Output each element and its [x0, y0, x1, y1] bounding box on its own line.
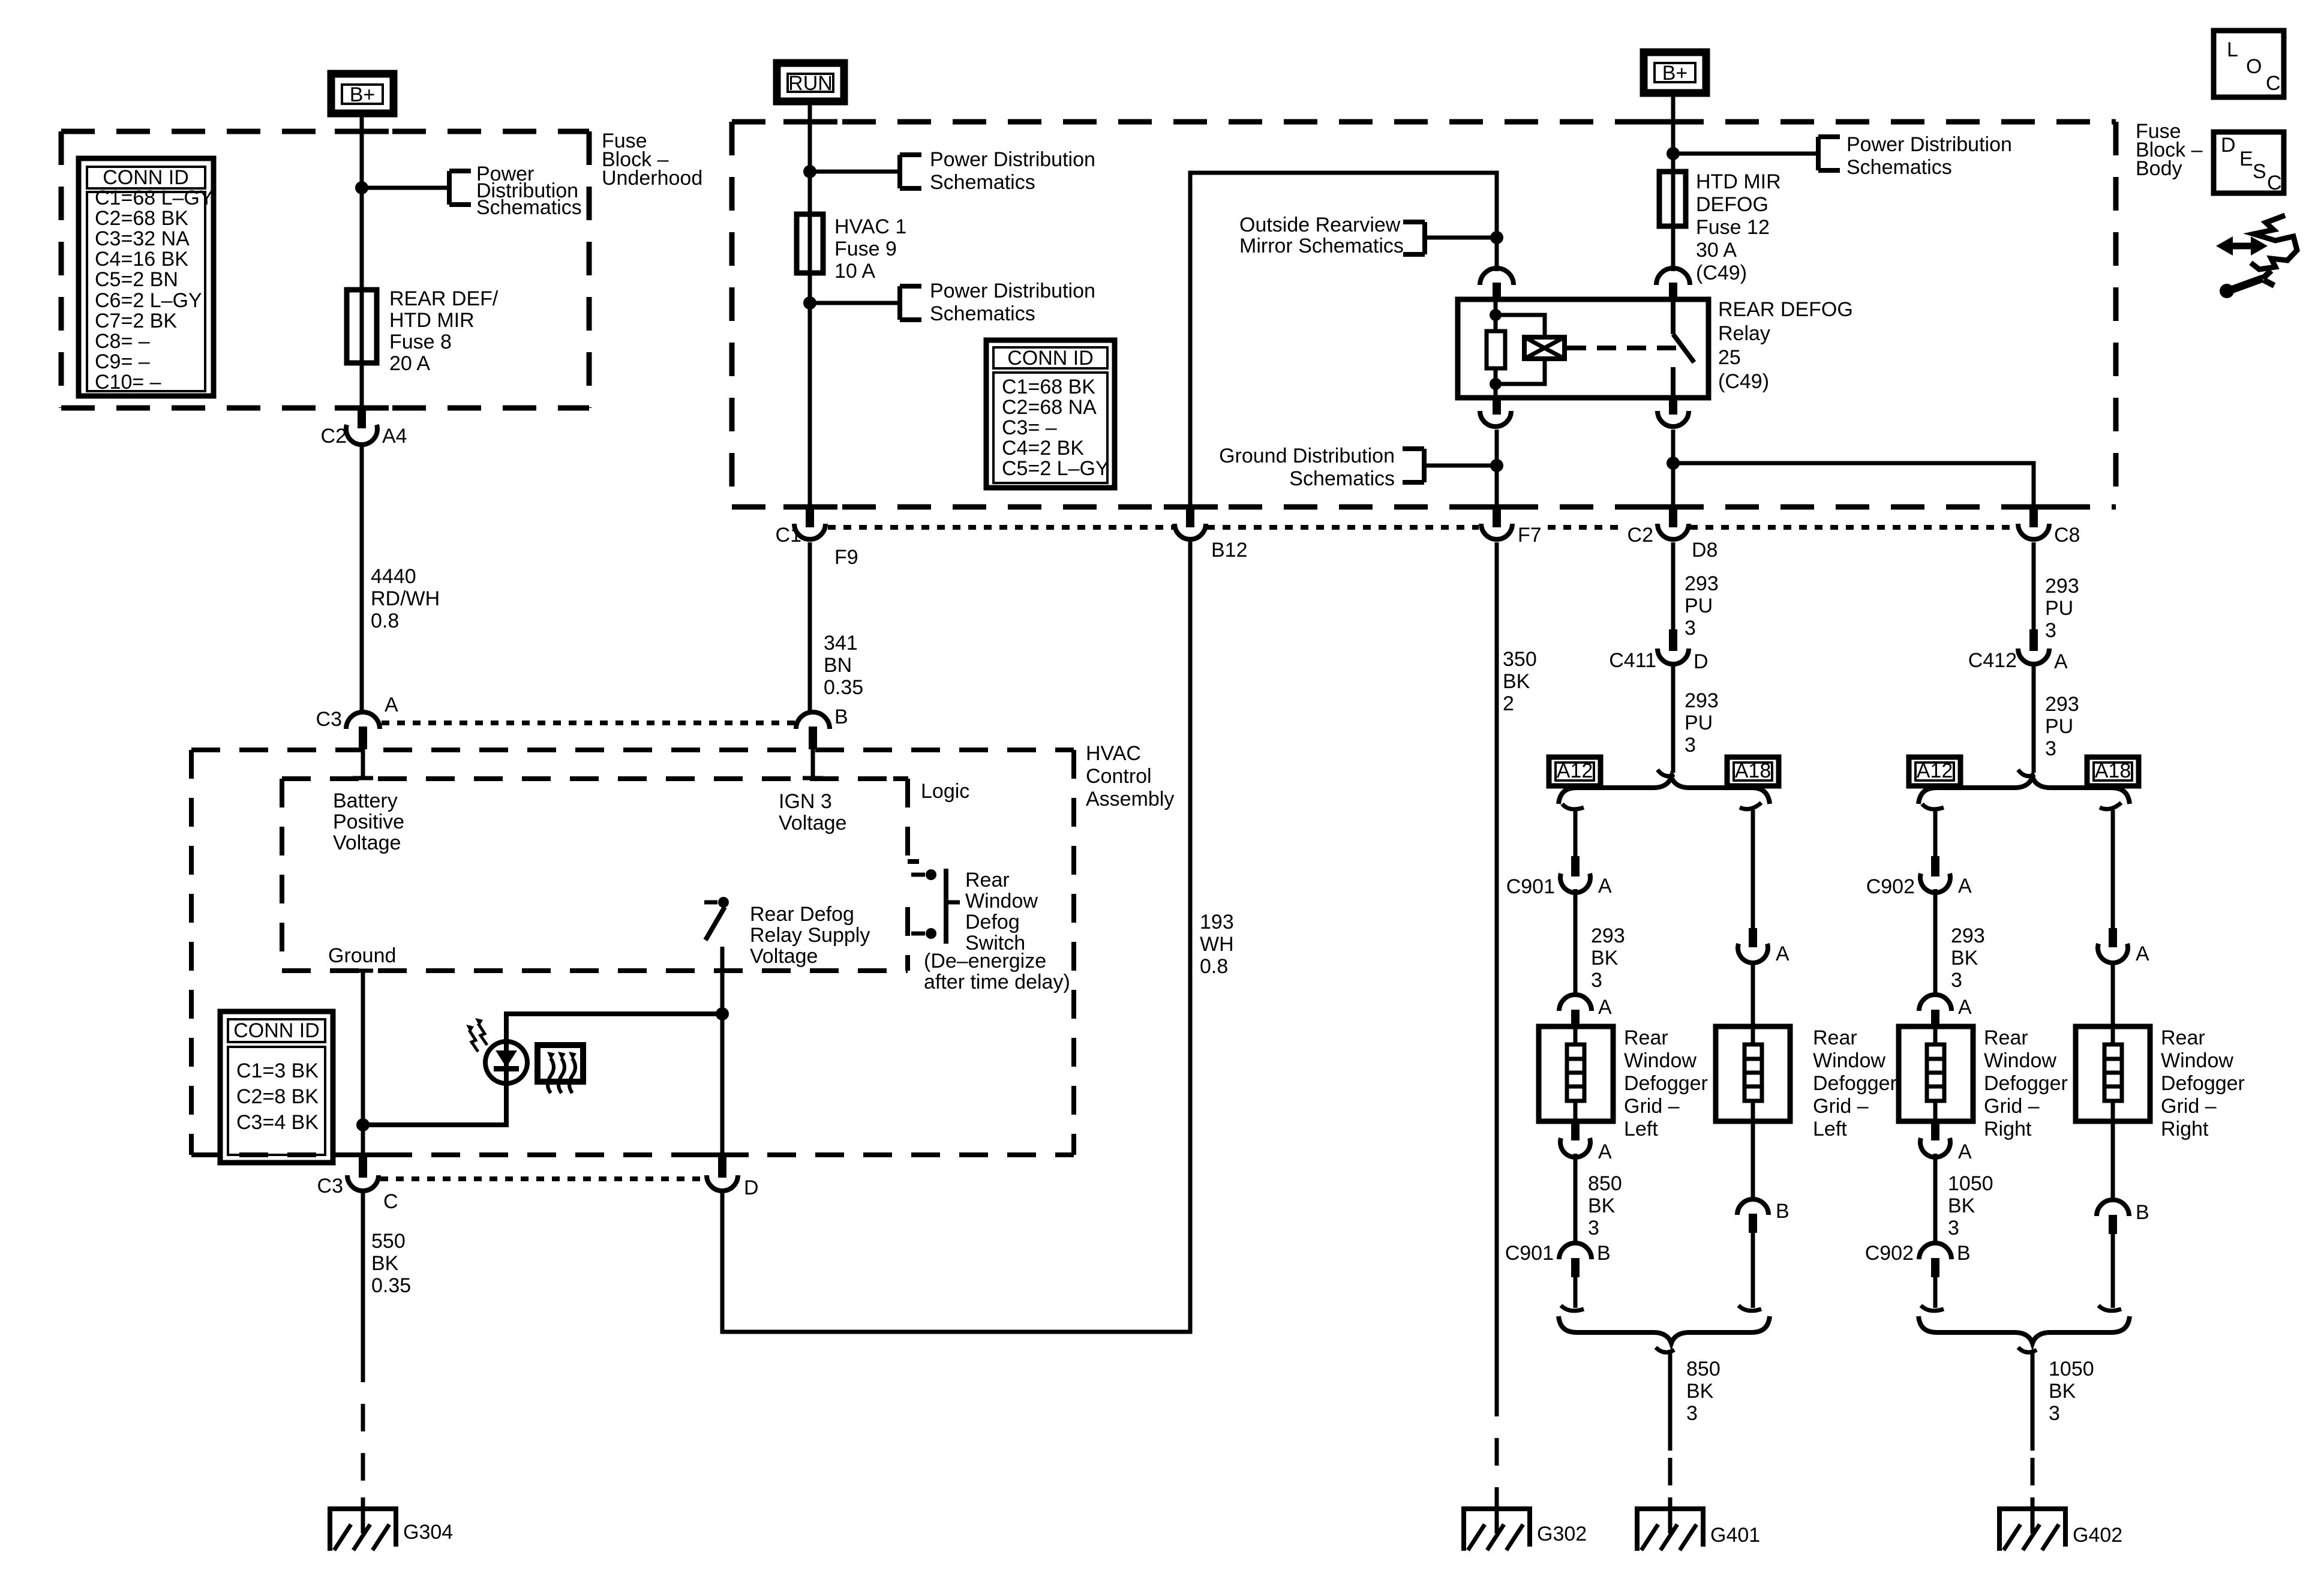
svg-text:Defogger: Defogger: [1984, 1072, 2068, 1095]
wire: col2 into bottom brace: [1751, 1233, 1755, 1308]
connector A (grid right 2): [2098, 928, 2149, 965]
wire: circuit 293 BK 3 (col3): [1933, 889, 1938, 993]
wire: circuit 293 PU 3 (lower): [1671, 664, 1676, 773]
bracket: power distribution schematics (underhood): [449, 171, 471, 205]
svg-text:3: 3: [1951, 969, 1962, 992]
label: Rear Window Defogger Grid - Right (1): [1984, 1026, 2068, 1140]
svg-text:30 A: 30 A: [1696, 239, 1737, 262]
svg-text:A4: A4: [382, 425, 407, 448]
splice hook col1 bottom: [1561, 1305, 1584, 1311]
connector: relay coil pin (bottom): [1480, 397, 1511, 427]
harness brace (left group top): [1559, 777, 1770, 804]
svg-text:Fuse 8: Fuse 8: [389, 331, 452, 353]
svg-text:Left: Left: [1813, 1118, 1847, 1140]
svg-text:C8: C8: [2054, 524, 2080, 547]
wire to bracket 2: [810, 301, 900, 305]
svg-text:L: L: [2227, 38, 2238, 61]
wire: col3 drop to C902: [1933, 810, 1938, 857]
svg-text:293: 293: [2045, 575, 2079, 598]
svg-text:3: 3: [1685, 617, 1696, 640]
svg-text:Schematics: Schematics: [930, 302, 1035, 325]
connector: relay switch pin (bottom): [1658, 397, 1689, 427]
LED indicator (defog on lamp): [466, 1018, 527, 1083]
svg-text:HTD MIR: HTD MIR: [1696, 170, 1781, 193]
svg-text:A18: A18: [2095, 760, 2131, 782]
connector C412/A: [1968, 629, 2068, 673]
connector B (grid left 2): [1737, 1199, 1789, 1233]
component: Rear Window Defogger Grid - Right (2): [2076, 1026, 2150, 1121]
component: Rear Window Defogger Grid - Right (1): [1899, 1026, 1973, 1121]
svg-text:C3= –: C3= –: [1002, 416, 1057, 439]
svg-text:Fuse 12: Fuse 12: [1696, 216, 1770, 239]
svg-text:C411: C411: [1609, 649, 1656, 672]
svg-text:after time delay): after time delay): [924, 971, 1070, 993]
svg-text:PU: PU: [2045, 715, 2073, 738]
value label: 1050 BK 3 (bottom): [2049, 1358, 2094, 1425]
svg-text:D8: D8: [1692, 539, 1718, 562]
svg-text:Schematics: Schematics: [930, 171, 1035, 194]
relay switch contacts: [1673, 299, 1694, 398]
svg-text:293: 293: [1951, 924, 1985, 947]
ground G302: [1464, 1509, 1587, 1551]
svg-text:B: B: [834, 706, 848, 728]
wire: col1 drop to C901: [1574, 810, 1578, 857]
wire: circuit 341 BN 0.35: [808, 542, 812, 712]
power terminal B+ (left): [331, 74, 394, 113]
svg-text:HVAC 1: HVAC 1: [834, 215, 906, 238]
svg-text:PU: PU: [1685, 712, 1713, 734]
svg-text:C902: C902: [1866, 875, 1915, 898]
wire: B+ feed (body): [1671, 93, 1676, 271]
svg-text:A: A: [1598, 1140, 1612, 1163]
wire: battery positive into logic: [361, 748, 365, 777]
junction: B+ / power distribution tap: [1667, 147, 1680, 160]
value label: 293 PU 3 (right upper): [2045, 575, 2079, 642]
svg-text:Body: Body: [2136, 157, 2182, 180]
svg-text:Fuse 9: Fuse 9: [834, 238, 897, 260]
svg-text:B: B: [1957, 1242, 1971, 1265]
svg-text:C6=2 L–GY: C6=2 L–GY: [95, 289, 202, 312]
svg-text:A: A: [1958, 1140, 1972, 1163]
wire: circuit 350 BK 2 to G302: [1495, 542, 1499, 1533]
wire: circuit 293 PU 3 (right lower): [2032, 664, 2036, 773]
connector B (HVAC IGN3 input): [796, 706, 848, 749]
svg-text:CONN ID: CONN ID: [1007, 347, 1094, 370]
bracket: power distribution schematics (body): [1818, 137, 1840, 170]
value label: 293 PU 3 (upper): [1685, 572, 1719, 640]
wire: col2 drop: [1751, 810, 1755, 929]
svg-text:C3=32 NA: C3=32 NA: [95, 227, 190, 250]
switch: rear defog relay supply driver: [704, 897, 729, 940]
value label: 850 BK 3 (col1): [1588, 1172, 1622, 1239]
label: (De-energize after time delay): [924, 950, 1070, 993]
svg-text:(De–energize: (De–energize: [924, 950, 1046, 972]
svg-text:350: 350: [1503, 648, 1537, 671]
svg-text:341: 341: [824, 632, 858, 655]
svg-text:1050: 1050: [2049, 1358, 2094, 1380]
svg-text:C5=2 BN: C5=2 BN: [95, 268, 178, 291]
wire: circuit 293 PU 3 (upper): [1671, 542, 1676, 631]
svg-text:C901: C901: [1506, 875, 1555, 898]
value label: Fuse 12: [1696, 170, 1781, 284]
svg-text:3: 3: [2049, 1402, 2060, 1425]
svg-text:F7: F7: [1518, 524, 1542, 547]
junction: B+ / C8 branch tap: [1667, 457, 1680, 470]
svg-text:BK: BK: [1588, 1194, 1616, 1217]
svg-text:3: 3: [1686, 1402, 1698, 1425]
svg-text:C5=2 L–GY: C5=2 L–GY: [1002, 457, 1109, 480]
svg-text:850: 850: [1588, 1172, 1622, 1195]
svg-text:HVAC: HVAC: [1086, 742, 1141, 765]
svg-text:B12: B12: [1211, 539, 1248, 562]
label: Rear Window Defogger Grid - Left (2): [1813, 1026, 1897, 1140]
svg-text:Rear: Rear: [2161, 1026, 2205, 1049]
svg-text:10 A: 10 A: [834, 260, 875, 283]
svg-text:B: B: [2136, 1201, 2149, 1224]
dashed box: HVAC Control Assembly: [191, 750, 1074, 1155]
bracket: ground distribution schematics: [1403, 449, 1424, 482]
fuse F12: HTD MIR DEFOG Fuse 12 30 A: [1659, 172, 1686, 226]
svg-text:Relay: Relay: [1718, 322, 1770, 345]
svg-text:Defog: Defog: [965, 911, 1020, 933]
connector C3/C (HVAC ground out): [317, 1156, 398, 1213]
svg-text:BK: BK: [1948, 1194, 1975, 1217]
connector A (grid right 1 top): [1919, 995, 1972, 1028]
svg-text:193: 193: [1200, 911, 1234, 933]
node: logic box entry T (battery): [353, 776, 373, 781]
svg-text:G402: G402: [2073, 1524, 2122, 1547]
wire: circuit 850 BK 3 (col1): [1574, 1154, 1578, 1244]
svg-text:Window: Window: [1624, 1049, 1697, 1072]
junction: RUN / power distribution tap 2: [803, 296, 816, 310]
wire: branch to C8: [1673, 463, 2034, 507]
svg-text:C9= –: C9= –: [95, 350, 150, 373]
wire: col4 into bottom brace: [2111, 1234, 2115, 1308]
dotted connector face line (fuse block body): [828, 525, 2017, 530]
svg-text:Outside Rearview: Outside Rearview: [1239, 214, 1401, 236]
wire: circuit 1050 BK 3 (col3): [1933, 1154, 1938, 1244]
svg-text:Positive: Positive: [333, 810, 404, 833]
svg-text:BK: BK: [1951, 947, 1978, 969]
harness brace (right group bottom): [1918, 1316, 2130, 1343]
table CONN ID (fuse block body): [986, 340, 1115, 488]
svg-text:IGN 3: IGN 3: [779, 790, 832, 813]
svg-text:4440: 4440: [371, 565, 416, 588]
svg-text:A: A: [1598, 996, 1612, 1019]
label: Power Distribution Schematics (run 1): [930, 148, 1095, 194]
label: Fuse Block - Underhood: [602, 130, 702, 190]
svg-text:Window: Window: [1984, 1049, 2056, 1072]
wire: circuit 850 BK 3 to G401: [1668, 1350, 1673, 1533]
connector: relay coil pin (top): [1480, 268, 1514, 301]
connector: relay switch pin (top): [1656, 268, 1690, 301]
svg-text:G302: G302: [1537, 1523, 1587, 1545]
dashed box: Fuse Block - Underhood: [61, 131, 589, 408]
svg-text:3: 3: [1948, 1217, 1959, 1239]
svg-text:BN: BN: [824, 654, 852, 677]
svg-text:Rear: Rear: [965, 869, 1010, 891]
svg-text:F9: F9: [834, 546, 858, 569]
label: Outside Rearview Mirror Schematics: [1239, 214, 1404, 257]
connector A (grid left 1 top): [1559, 995, 1612, 1028]
svg-text:C901: C901: [1505, 1242, 1554, 1265]
label: Ground Distribution Schematics: [1219, 445, 1395, 490]
relay: REAR DEFOG Relay 25 (C49): [1458, 299, 1709, 398]
svg-text:C4=2 BK: C4=2 BK: [1002, 437, 1084, 460]
svg-text:Grid –: Grid –: [1813, 1095, 1869, 1118]
splice hook col A18: [1740, 803, 1761, 809]
bracket: power distribution schematics (run 2): [900, 286, 921, 320]
junction: LED top / relay supply: [716, 1007, 729, 1020]
svg-text:C2: C2: [321, 425, 347, 448]
svg-text:Grid –: Grid –: [2161, 1095, 2217, 1118]
svg-text:C1=3 BK: C1=3 BK: [236, 1059, 319, 1082]
dotted connector face line C3: [382, 721, 795, 725]
svg-text:850: 850: [1686, 1358, 1721, 1380]
svg-text:A: A: [2054, 650, 2068, 673]
svg-text:Power Distribution: Power Distribution: [1846, 133, 2012, 156]
wire to bracket: [1673, 152, 1818, 156]
switch: rear window defog switch: [911, 869, 960, 944]
value label: 293 PU 3 (lower): [1685, 689, 1719, 757]
connector A (grid left 2): [1738, 928, 1789, 965]
value label: 4440 RD/WH 0.8: [371, 565, 440, 632]
svg-text:3: 3: [2045, 619, 2056, 642]
wire: circuit 4440 RD/WH 0.8: [360, 444, 364, 712]
dashed box: Fuse Block - Body: [732, 122, 2116, 507]
wire: col1 into bottom brace: [1574, 1277, 1578, 1308]
svg-text:Mirror Schematics: Mirror Schematics: [1239, 235, 1404, 257]
junction: ground distribution tap: [1490, 459, 1503, 472]
svg-text:25: 25: [1718, 346, 1741, 369]
label: Fuse Block - Body: [2136, 120, 2203, 180]
svg-text:C3=4 BK: C3=4 BK: [236, 1111, 319, 1134]
svg-text:C1: C1: [776, 524, 801, 547]
svg-text:DEFOG: DEFOG: [1696, 193, 1768, 216]
wire: LED top to relay supply line: [506, 1014, 722, 1042]
label: Power Distribution Schematics (underhood): [476, 163, 582, 219]
svg-text:B+: B+: [1662, 62, 1688, 85]
wire: ground leg inside HVAC: [361, 971, 365, 1160]
svg-text:B+: B+: [350, 83, 376, 106]
relay suppression element (box with X): [1524, 337, 1565, 359]
dotted connector face line (HVAC bottom): [380, 1176, 704, 1181]
connector C901/A: [1506, 856, 1612, 898]
splice hook into brace (right group): [2018, 770, 2035, 776]
terminal box A12 (right grid): [1909, 757, 1960, 786]
svg-text:293: 293: [1685, 689, 1719, 712]
value label: Fuse 9: [834, 215, 906, 283]
wire: LED branch: [363, 1083, 506, 1125]
svg-text:REAR DEF/: REAR DEF/: [389, 287, 499, 310]
splice hook col3 bottom: [1921, 1305, 1944, 1311]
splice hook below brace: [1656, 1347, 1674, 1352]
svg-text:A: A: [1776, 942, 1789, 965]
table CONN ID (HVAC): [220, 1011, 333, 1163]
wire: B+ feed into fuse block: [360, 113, 364, 410]
connector C2/A4 (fuse block underhood): [321, 409, 407, 448]
svg-text:Window: Window: [1813, 1049, 1885, 1072]
svg-text:C10= –: C10= –: [95, 371, 161, 394]
svg-text:REAR DEFOG: REAR DEFOG: [1718, 298, 1853, 321]
svg-text:O: O: [2246, 55, 2262, 78]
svg-text:1050: 1050: [1948, 1172, 1993, 1195]
svg-text:RUN: RUN: [788, 72, 833, 95]
svg-text:BK: BK: [1591, 947, 1619, 969]
wire: relay supply leg inside HVAC: [720, 947, 725, 1160]
LOC reference box: [2214, 31, 2284, 97]
svg-text:(C49): (C49): [1696, 262, 1747, 284]
junction: coil top: [1490, 309, 1502, 321]
svg-text:C1=68 L–GY: C1=68 L–GY: [95, 187, 214, 209]
pin label: Rear Defog Relay Supply Voltage: [750, 903, 870, 968]
connector C902/B: [1865, 1242, 1971, 1277]
svg-text:Assembly: Assembly: [1086, 788, 1174, 810]
svg-text:A18: A18: [1735, 760, 1771, 782]
svg-text:B: B: [1597, 1242, 1611, 1265]
fuse F9: HVAC 1 Fuse 9 10 A: [797, 214, 823, 273]
svg-text:(C49): (C49): [1718, 370, 1769, 393]
svg-text:Defogger: Defogger: [2161, 1072, 2245, 1095]
label: Power Distribution Schematics (body): [1846, 133, 2012, 179]
wire: tap to power distribution schematics: [362, 186, 449, 190]
svg-text:Window: Window: [2161, 1049, 2233, 1072]
node: logic box entry T: [803, 776, 823, 781]
svg-text:Window: Window: [965, 890, 1038, 912]
terminal box A18 (right grid): [2087, 757, 2139, 786]
wire: circuit 550 BK 0.35 to G304: [361, 1193, 365, 1533]
wire: col4 drop: [2111, 810, 2115, 929]
svg-text:A: A: [1958, 996, 1972, 1019]
svg-text:Grid –: Grid –: [1624, 1095, 1680, 1118]
value label: 293 BK 3 (col3): [1951, 924, 1985, 992]
node: logic box exit T (ground): [353, 969, 373, 973]
svg-text:Defogger: Defogger: [1624, 1072, 1708, 1095]
svg-text:A: A: [1958, 875, 1972, 897]
wire: col4 grid out: [2111, 1121, 2115, 1199]
svg-text:Rear: Rear: [1813, 1026, 1857, 1049]
svg-text:G304: G304: [403, 1521, 453, 1544]
junction: RUN / power distribution tap 1: [803, 165, 816, 178]
splice hook col3: [1922, 804, 1944, 809]
svg-text:C4=16 BK: C4=16 BK: [95, 248, 188, 271]
connector C8 (fuse block body): [2018, 507, 2080, 547]
svg-text:E: E: [2239, 148, 2253, 170]
svg-text:C2=68 NA: C2=68 NA: [1002, 396, 1097, 419]
ground G401: [1637, 1509, 1760, 1551]
svg-text:Ground: Ground: [328, 944, 396, 967]
svg-text:C412: C412: [1968, 649, 2017, 672]
connector C2/D8 (fuse block body): [1628, 507, 1718, 562]
svg-text:BK: BK: [371, 1252, 399, 1275]
svg-text:HTD MIR: HTD MIR: [389, 309, 475, 332]
svg-text:Schematics: Schematics: [1846, 156, 1952, 179]
wire: circuit 293 BK 3 (col1): [1574, 889, 1578, 993]
svg-text:Rear: Rear: [1984, 1026, 2028, 1049]
svg-text:0.35: 0.35: [824, 676, 863, 699]
svg-text:Schematics: Schematics: [476, 196, 582, 219]
connector C411/D: [1609, 629, 1708, 673]
connector B12 (fuse block body): [1175, 507, 1248, 562]
wire: relay coil to F7: [1495, 430, 1499, 507]
svg-text:Power Distribution: Power Distribution: [930, 148, 1095, 171]
svg-text:PU: PU: [1685, 595, 1713, 617]
relay coil resistor: [1487, 331, 1505, 368]
svg-text:Voltage: Voltage: [333, 831, 401, 854]
svg-text:Logic: Logic: [921, 780, 969, 803]
svg-text:BK: BK: [1686, 1380, 1714, 1403]
label: REAR DEFOG Relay 25 (C49): [1718, 298, 1853, 393]
harness brace (right group top): [1918, 777, 2130, 804]
svg-text:Relay Supply: Relay Supply: [750, 924, 870, 947]
heated grid indicator symbol: [538, 1045, 583, 1093]
svg-text:293: 293: [2045, 693, 2079, 716]
svg-text:Defogger: Defogger: [1813, 1072, 1897, 1095]
svg-text:Right: Right: [1984, 1118, 2032, 1140]
component: Rear Window Defogger Grid - Left (1): [1539, 1026, 1613, 1121]
svg-text:D: D: [1694, 650, 1709, 673]
ground G304: [330, 1509, 453, 1551]
pin label: IGN 3 Voltage: [779, 790, 846, 834]
svg-text:C: C: [383, 1190, 398, 1213]
junction: B+ / power distribution tap: [355, 181, 368, 194]
value label: 293 PU 3 (right lower): [2045, 693, 2079, 760]
svg-text:A: A: [385, 694, 398, 716]
svg-text:Ground Distribution: Ground Distribution: [1219, 445, 1395, 467]
svg-text:0.35: 0.35: [371, 1274, 411, 1297]
value label: 1050 BK 3 (col3): [1948, 1172, 1993, 1239]
power terminal B+ (right): [1644, 52, 1706, 93]
svg-text:3: 3: [1591, 969, 1602, 992]
svg-text:A: A: [2136, 942, 2149, 965]
wire: col4 to grid: [2111, 960, 2115, 1026]
connector C3/A (HVAC control assembly): [316, 694, 398, 749]
ignition terminal RUN: [777, 63, 844, 101]
svg-text:A12: A12: [1557, 760, 1593, 782]
svg-text:0.8: 0.8: [1200, 955, 1228, 978]
relay suppression element branch: [1496, 315, 1545, 384]
svg-text:3: 3: [1588, 1217, 1599, 1239]
svg-text:A: A: [1598, 875, 1612, 897]
svg-text:C8= –: C8= –: [95, 330, 150, 353]
value label: Fuse 8: [389, 287, 499, 375]
wire: circuit 1050 BK 3 to G402: [2031, 1350, 2035, 1533]
label: Rear Window Defogger Grid - Right (2): [2161, 1026, 2245, 1140]
svg-text:Voltage: Voltage: [750, 945, 818, 968]
dashed box: Logic: [282, 779, 919, 971]
svg-text:WH: WH: [1200, 933, 1234, 956]
svg-text:Schematics: Schematics: [1289, 467, 1395, 490]
pin label: Battery Positive Voltage: [333, 789, 404, 854]
bracket: outside rearview mirror schematics: [1403, 222, 1425, 254]
svg-text:Battery: Battery: [333, 789, 398, 812]
svg-text:2: 2: [1503, 692, 1514, 715]
value label: 341 BN 0.35: [824, 632, 863, 699]
svg-text:B: B: [1776, 1200, 1789, 1223]
svg-text:Grid –: Grid –: [1984, 1095, 2040, 1118]
table CONN ID (underhood): [79, 158, 214, 396]
svg-text:Rear Defog: Rear Defog: [750, 903, 854, 926]
wire to bracket: [810, 170, 900, 174]
connector C902/A: [1866, 856, 1972, 898]
terminal box A12 (left grid): [1549, 757, 1601, 786]
splice hook into brace (left group): [1658, 770, 1674, 776]
junction: coil bottom: [1490, 378, 1502, 390]
svg-text:C2=68 BK: C2=68 BK: [95, 207, 188, 230]
value label: 293 BK 3 (col1): [1591, 924, 1625, 992]
splice hook col2 bottom: [1739, 1305, 1761, 1311]
wire: relay supply run to B12 riser: [722, 542, 1190, 1332]
